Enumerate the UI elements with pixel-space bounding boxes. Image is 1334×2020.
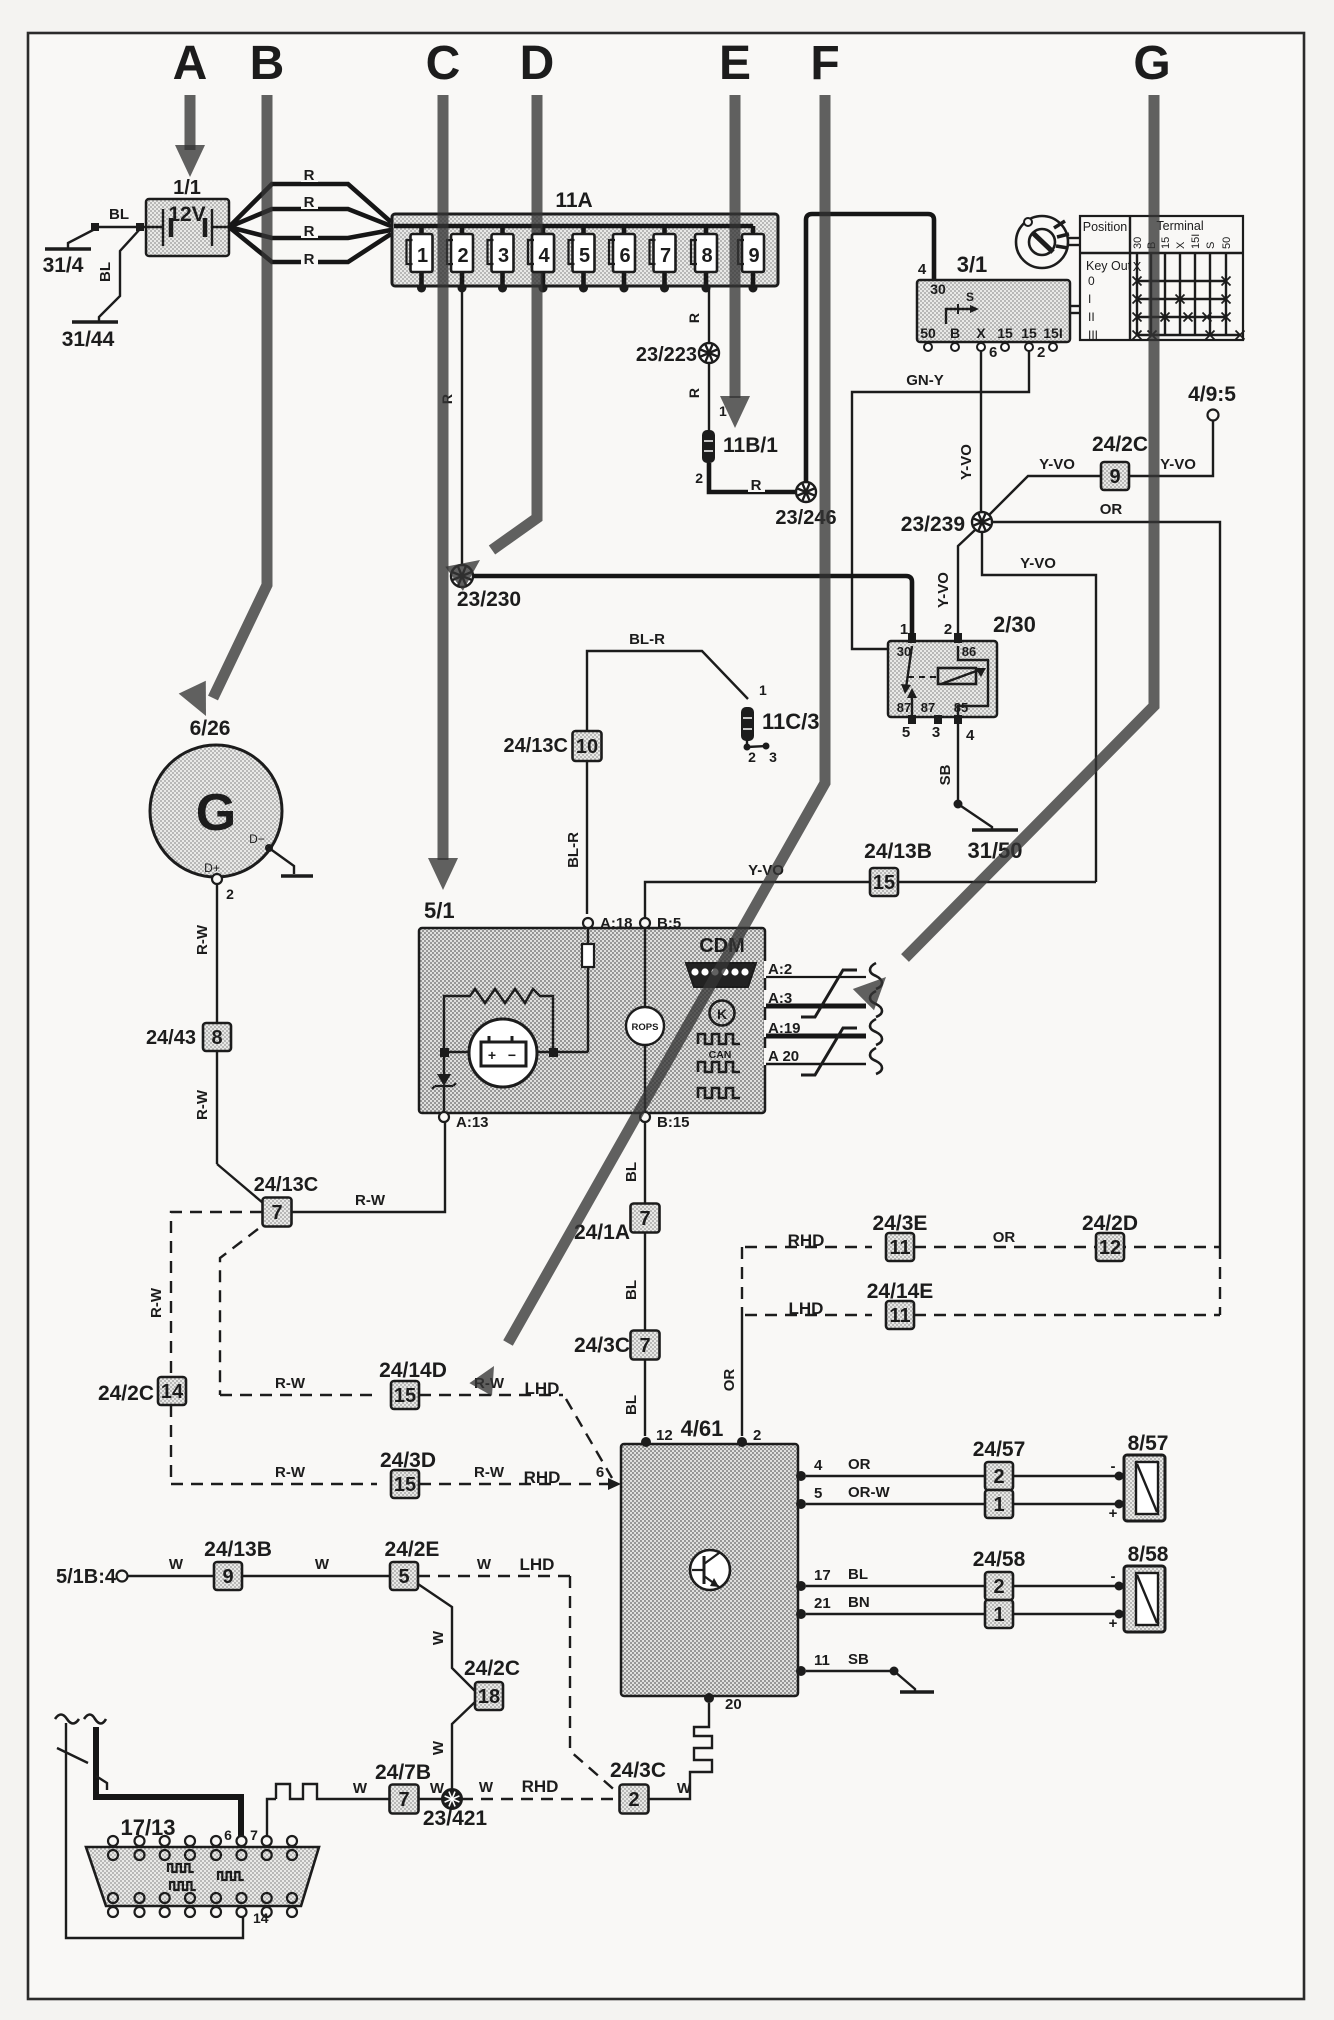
svg-text:ROPS: ROPS bbox=[632, 1022, 659, 1033]
svg-text:X: X bbox=[976, 325, 986, 341]
svg-text:11A: 11A bbox=[555, 189, 592, 212]
svg-text:X: X bbox=[1133, 259, 1142, 274]
svg-text:OR-W: OR-W bbox=[848, 1484, 890, 1501]
svg-text:24/3E: 24/3E bbox=[873, 1212, 928, 1235]
svg-text:15: 15 bbox=[1160, 237, 1172, 249]
svg-text:R: R bbox=[686, 313, 702, 323]
svg-text:R-W: R-W bbox=[194, 1089, 211, 1120]
svg-text:A:2: A:2 bbox=[768, 961, 792, 978]
svg-text:24/2E: 24/2E bbox=[385, 1538, 440, 1561]
svg-text:4: 4 bbox=[966, 727, 975, 744]
svg-text:86: 86 bbox=[962, 644, 976, 659]
svg-text:SB: SB bbox=[937, 764, 954, 785]
svg-text:20: 20 bbox=[725, 1696, 742, 1713]
svg-text:6/26: 6/26 bbox=[190, 717, 231, 740]
svg-text:15: 15 bbox=[873, 872, 895, 894]
svg-text:A:18: A:18 bbox=[600, 915, 633, 932]
svg-text:8: 8 bbox=[701, 245, 712, 267]
svg-text:24/13B: 24/13B bbox=[204, 1538, 272, 1561]
svg-text:6: 6 bbox=[596, 1464, 604, 1481]
svg-text:R-W: R-W bbox=[474, 1464, 505, 1481]
svg-text:W: W bbox=[430, 1740, 447, 1755]
svg-text:24/14E: 24/14E bbox=[867, 1280, 934, 1303]
svg-text:12V: 12V bbox=[168, 203, 205, 226]
svg-text:R-W: R-W bbox=[194, 924, 211, 955]
svg-text:24/7B: 24/7B bbox=[375, 1761, 431, 1784]
svg-text:S: S bbox=[1205, 242, 1217, 249]
svg-text:-: - bbox=[1111, 1568, 1116, 1585]
svg-text:S: S bbox=[966, 290, 974, 304]
svg-text:D−: D− bbox=[249, 832, 265, 846]
svg-text:1: 1 bbox=[417, 245, 428, 267]
svg-text:BL: BL bbox=[623, 1280, 640, 1300]
svg-text:K: K bbox=[717, 1006, 727, 1022]
svg-text:6: 6 bbox=[619, 245, 630, 267]
svg-text:Terminal: Terminal bbox=[1156, 219, 1203, 233]
svg-text:1: 1 bbox=[759, 682, 767, 698]
svg-text:2: 2 bbox=[695, 470, 703, 486]
svg-text:24/14D: 24/14D bbox=[379, 1359, 447, 1382]
svg-text:R-W: R-W bbox=[275, 1375, 306, 1392]
svg-text:24/13C: 24/13C bbox=[254, 1174, 319, 1196]
svg-text:31/4: 31/4 bbox=[43, 254, 84, 277]
svg-text:5/1B:4: 5/1B:4 bbox=[56, 1566, 117, 1588]
svg-text:3: 3 bbox=[498, 245, 509, 267]
svg-text:CAN: CAN bbox=[709, 1049, 732, 1061]
svg-text:7: 7 bbox=[639, 1208, 650, 1230]
svg-text:W: W bbox=[677, 1780, 692, 1797]
svg-text:24/43: 24/43 bbox=[146, 1027, 196, 1049]
svg-text:5: 5 bbox=[902, 724, 910, 741]
svg-text:R: R bbox=[304, 251, 315, 268]
svg-text:-: - bbox=[1111, 1458, 1116, 1475]
svg-text:2: 2 bbox=[226, 886, 234, 902]
svg-text:R: R bbox=[304, 223, 315, 240]
svg-text:5: 5 bbox=[814, 1485, 822, 1502]
svg-text:7: 7 bbox=[271, 1202, 282, 1224]
svg-text:30: 30 bbox=[1132, 237, 1144, 249]
svg-text:2: 2 bbox=[993, 1466, 1004, 1488]
svg-text:50: 50 bbox=[920, 325, 936, 341]
svg-text:87: 87 bbox=[897, 700, 911, 715]
svg-text:BN: BN bbox=[848, 1594, 870, 1611]
svg-text:GN-Y: GN-Y bbox=[906, 372, 944, 389]
svg-text:15I: 15I bbox=[1190, 234, 1202, 249]
svg-text:2: 2 bbox=[457, 245, 468, 267]
svg-text:−: − bbox=[508, 1047, 516, 1063]
svg-text:OR: OR bbox=[1100, 501, 1123, 518]
svg-text:Key Out: Key Out bbox=[1086, 259, 1132, 273]
svg-text:3/1: 3/1 bbox=[957, 252, 988, 277]
svg-text:24/58: 24/58 bbox=[973, 1548, 1026, 1571]
svg-text:RHD: RHD bbox=[522, 1777, 559, 1796]
svg-text:G: G bbox=[1133, 37, 1170, 90]
svg-text:A: A bbox=[173, 37, 208, 90]
svg-text:6: 6 bbox=[989, 344, 997, 361]
svg-text:5: 5 bbox=[579, 245, 590, 267]
svg-text:24/3C: 24/3C bbox=[610, 1759, 666, 1782]
svg-text:24/3C: 24/3C bbox=[574, 1334, 630, 1357]
svg-text:BL-R: BL-R bbox=[565, 832, 582, 868]
svg-text:15: 15 bbox=[394, 1474, 416, 1496]
svg-text:8/58: 8/58 bbox=[1128, 1543, 1169, 1566]
svg-text:5: 5 bbox=[398, 1566, 409, 1588]
svg-text:23/239: 23/239 bbox=[901, 513, 965, 536]
svg-text:23/223: 23/223 bbox=[636, 344, 697, 366]
svg-text:24/2C: 24/2C bbox=[98, 1382, 154, 1405]
svg-text:24/2D: 24/2D bbox=[1082, 1212, 1138, 1235]
svg-text:7: 7 bbox=[639, 1335, 650, 1357]
svg-text:12: 12 bbox=[1099, 1237, 1121, 1259]
svg-text:D: D bbox=[520, 37, 555, 90]
svg-text:15: 15 bbox=[394, 1385, 416, 1407]
svg-text:15: 15 bbox=[1021, 325, 1037, 341]
svg-text:W: W bbox=[477, 1556, 492, 1573]
svg-text:F: F bbox=[810, 37, 839, 90]
svg-text:11: 11 bbox=[814, 1652, 830, 1669]
svg-text:9: 9 bbox=[1109, 466, 1120, 488]
svg-text:BL-R: BL-R bbox=[629, 631, 665, 648]
svg-text:Y-VO: Y-VO bbox=[958, 444, 975, 480]
svg-text:W: W bbox=[353, 1780, 368, 1797]
svg-text:87: 87 bbox=[921, 700, 935, 715]
svg-text:2/30: 2/30 bbox=[993, 612, 1036, 637]
svg-text:14: 14 bbox=[161, 1381, 184, 1403]
svg-text:7: 7 bbox=[660, 245, 671, 267]
svg-text:4/9:5: 4/9:5 bbox=[1188, 383, 1236, 406]
svg-text:BL: BL bbox=[97, 262, 114, 282]
svg-text:9: 9 bbox=[748, 245, 759, 267]
svg-text:24/13B: 24/13B bbox=[864, 840, 932, 863]
svg-text:D+: D+ bbox=[204, 861, 220, 875]
svg-text:11: 11 bbox=[889, 1305, 910, 1327]
svg-text:Position: Position bbox=[1083, 220, 1128, 234]
svg-text:15I: 15I bbox=[1043, 325, 1062, 341]
svg-text:Y-VO: Y-VO bbox=[1039, 456, 1075, 473]
svg-text:23/421: 23/421 bbox=[423, 1807, 488, 1830]
svg-text:BL: BL bbox=[623, 1395, 640, 1415]
svg-text:5/1: 5/1 bbox=[424, 898, 455, 923]
svg-text:Y-VO: Y-VO bbox=[935, 572, 952, 608]
svg-text:4/61: 4/61 bbox=[681, 1416, 724, 1441]
svg-text:8/57: 8/57 bbox=[1128, 1432, 1169, 1455]
svg-text:21: 21 bbox=[814, 1595, 831, 1612]
svg-text:BL: BL bbox=[848, 1566, 868, 1583]
svg-text:30: 30 bbox=[930, 281, 946, 297]
svg-text:+: + bbox=[1109, 1505, 1118, 1522]
svg-text:30: 30 bbox=[897, 644, 911, 659]
svg-text:4: 4 bbox=[918, 261, 927, 278]
svg-text:6: 6 bbox=[224, 1827, 232, 1843]
svg-text:31/44: 31/44 bbox=[62, 328, 115, 351]
svg-text:4: 4 bbox=[538, 245, 550, 267]
svg-text:12: 12 bbox=[656, 1427, 673, 1444]
svg-text:B:15: B:15 bbox=[657, 1114, 690, 1131]
svg-text:R-W: R-W bbox=[275, 1464, 306, 1481]
svg-text:OR: OR bbox=[721, 1369, 738, 1392]
svg-text:W: W bbox=[169, 1556, 184, 1573]
svg-text:8: 8 bbox=[211, 1027, 222, 1049]
svg-text:R-W: R-W bbox=[148, 1287, 165, 1318]
svg-text:LHD: LHD bbox=[520, 1555, 555, 1574]
svg-text:R: R bbox=[304, 167, 315, 184]
svg-text:A:13: A:13 bbox=[456, 1114, 489, 1131]
svg-text:W: W bbox=[479, 1779, 494, 1796]
svg-text:1: 1 bbox=[993, 1494, 1004, 1516]
svg-text:W: W bbox=[430, 1630, 447, 1645]
svg-text:24/57: 24/57 bbox=[973, 1438, 1026, 1461]
svg-text:B: B bbox=[950, 325, 960, 341]
svg-text:3: 3 bbox=[769, 749, 777, 765]
svg-text:OR: OR bbox=[848, 1456, 871, 1473]
svg-text:B: B bbox=[250, 37, 285, 90]
svg-text:1: 1 bbox=[993, 1604, 1004, 1626]
svg-text:I: I bbox=[1088, 292, 1091, 306]
svg-text:R: R bbox=[751, 477, 762, 494]
svg-text:50: 50 bbox=[1221, 237, 1233, 249]
svg-text:2: 2 bbox=[748, 749, 756, 765]
svg-text:2: 2 bbox=[993, 1576, 1004, 1598]
svg-text:B:5: B:5 bbox=[657, 915, 681, 932]
svg-text:BL: BL bbox=[109, 206, 129, 223]
svg-text:0: 0 bbox=[1088, 274, 1095, 288]
svg-text:11: 11 bbox=[889, 1237, 910, 1259]
svg-text:1/1: 1/1 bbox=[173, 177, 201, 199]
svg-text:R: R bbox=[686, 388, 702, 398]
svg-text:SB: SB bbox=[848, 1651, 869, 1668]
svg-text:E: E bbox=[719, 37, 751, 90]
svg-text:4: 4 bbox=[814, 1457, 823, 1474]
svg-text:24/1A: 24/1A bbox=[574, 1221, 630, 1244]
svg-text:1: 1 bbox=[900, 621, 908, 638]
svg-text:G: G bbox=[196, 784, 236, 842]
svg-text:14: 14 bbox=[253, 1910, 269, 1926]
svg-text:BL: BL bbox=[623, 1162, 640, 1182]
svg-text:11C/3: 11C/3 bbox=[762, 709, 820, 734]
svg-text:R-W: R-W bbox=[355, 1192, 386, 1209]
svg-text:23/230: 23/230 bbox=[457, 588, 521, 611]
svg-text:24/2C: 24/2C bbox=[1092, 433, 1148, 456]
svg-text:2: 2 bbox=[1037, 344, 1045, 361]
svg-text:3: 3 bbox=[932, 724, 940, 741]
svg-text:III: III bbox=[1088, 328, 1098, 342]
svg-text:Y-VO: Y-VO bbox=[1160, 456, 1196, 473]
svg-text:10: 10 bbox=[576, 736, 598, 758]
svg-text:2: 2 bbox=[753, 1427, 761, 1444]
svg-text:24/3D: 24/3D bbox=[380, 1449, 436, 1472]
svg-text:W: W bbox=[315, 1556, 330, 1573]
svg-text:2: 2 bbox=[944, 621, 952, 638]
svg-text:OR: OR bbox=[993, 1229, 1016, 1246]
svg-text:R: R bbox=[304, 194, 315, 211]
svg-text:24/13C: 24/13C bbox=[504, 735, 569, 757]
svg-text:7: 7 bbox=[398, 1789, 409, 1811]
svg-text:24/2C: 24/2C bbox=[464, 1657, 520, 1680]
svg-text:+: + bbox=[488, 1047, 496, 1063]
svg-text:RHD: RHD bbox=[524, 1468, 561, 1487]
svg-text:Y-VO: Y-VO bbox=[1020, 555, 1056, 572]
svg-text:15: 15 bbox=[997, 325, 1013, 341]
svg-text:85: 85 bbox=[954, 700, 968, 715]
svg-text:17: 17 bbox=[814, 1567, 831, 1584]
svg-text:LHD: LHD bbox=[525, 1379, 560, 1398]
svg-text:11B/1: 11B/1 bbox=[723, 434, 778, 457]
svg-text:+: + bbox=[1109, 1615, 1118, 1632]
svg-text:C: C bbox=[426, 37, 461, 90]
svg-text:18: 18 bbox=[478, 1686, 500, 1708]
svg-text:9: 9 bbox=[222, 1566, 233, 1588]
svg-text:II: II bbox=[1088, 310, 1095, 324]
svg-text:2: 2 bbox=[628, 1789, 639, 1811]
svg-text:A 20: A 20 bbox=[768, 1048, 799, 1065]
svg-text:X: X bbox=[1175, 241, 1187, 249]
svg-text:7: 7 bbox=[250, 1827, 258, 1843]
